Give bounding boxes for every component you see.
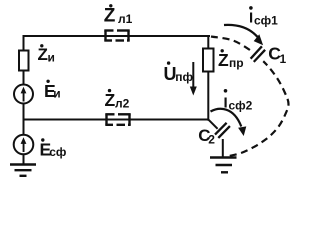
- svg-text:Z: Z: [104, 5, 116, 26]
- label C1: [268, 44, 286, 66]
- svg-text:2: 2: [208, 133, 215, 147]
- current arrow I_sf1: [224, 25, 260, 40]
- wire junction to capacitor C2 diagonal: [209, 120, 218, 129]
- wire middle horizontal: [24, 119, 209, 121]
- arrowhead U_pf: [190, 87, 197, 96]
- voltage arrow U_pf: [192, 62, 194, 89]
- svg-text:Z: Z: [38, 45, 48, 64]
- wire Z_pr to junction: [207, 72, 209, 121]
- svg-text:л1: л1: [118, 12, 133, 26]
- impedance Z_i rectangle: [19, 51, 29, 71]
- impedance Z_pr rectangle: [203, 49, 214, 72]
- svg-text:сф1: сф1: [254, 14, 278, 28]
- impedance Z_l2 dashed rectangle: [105, 114, 130, 125]
- svg-text:I: I: [224, 95, 228, 112]
- label I_sf2: [224, 89, 253, 113]
- capacitor C2 plates: [215, 123, 230, 138]
- label E_sf: [40, 138, 67, 159]
- current arrow I_sf2: [211, 109, 242, 127]
- wire C2 to ground: [222, 139, 224, 158]
- label U_pf: [164, 61, 194, 84]
- svg-text:пф: пф: [175, 70, 193, 84]
- source E_sf arrow: [21, 137, 27, 152]
- source E_sf circle: [14, 135, 34, 155]
- ground right: [210, 158, 237, 173]
- wire resistor to source E_i: [23, 71, 25, 86]
- source E_i arrow: [21, 87, 27, 102]
- svg-text:сф: сф: [49, 145, 67, 159]
- arrowhead I_sf2: [238, 126, 246, 136]
- svg-text:и: и: [48, 51, 55, 65]
- source E_i circle: [14, 85, 33, 104]
- stray current dashed arc: [211, 37, 289, 157]
- svg-text:и: и: [53, 87, 60, 101]
- svg-text:л2: л2: [115, 97, 130, 111]
- wire right vertical upper: [207, 36, 209, 49]
- label Z_i: [38, 44, 55, 64]
- impedance Z_l1 dashed rectangle: [104, 31, 129, 41]
- label Z_l1: [104, 4, 133, 26]
- arrowhead I_sf1: [254, 34, 263, 45]
- label I_sf1: [249, 6, 278, 27]
- wire E_i to junction to E_sf: [23, 104, 25, 136]
- wire E_sf to ground: [23, 154, 25, 164]
- label E_i: [44, 80, 61, 101]
- ground left: [10, 165, 36, 176]
- wire left vertical upper: [23, 35, 25, 51]
- svg-text:Z: Z: [218, 50, 229, 70]
- label Z_l2: [105, 89, 130, 111]
- capacitor C1 plates: [251, 46, 266, 62]
- wire top horizontal: [23, 35, 211, 37]
- svg-text:1: 1: [280, 52, 287, 66]
- label C2: [198, 126, 215, 147]
- label Z_pr: [218, 49, 244, 70]
- white gap for C1 on arc: [250, 49, 265, 64]
- svg-text:I: I: [249, 10, 253, 27]
- svg-text:пр: пр: [229, 56, 244, 70]
- svg-text:сф2: сф2: [229, 99, 253, 113]
- svg-text:Z: Z: [105, 90, 116, 110]
